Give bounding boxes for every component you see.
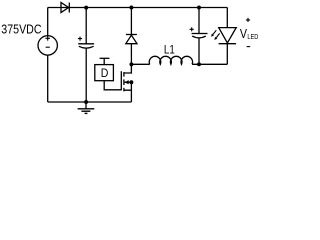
capacitor C2 output cap [190, 8, 208, 65]
capacitor C1 input bulk cap [78, 8, 94, 103]
svg-text:375VDC: 375VDC [1, 22, 42, 37]
wire inductor to output corner [192, 63, 227, 65]
svg-text:L1: L1 [164, 43, 175, 56]
node dot body-source tie [129, 80, 133, 84]
svg-text:V: V [240, 27, 247, 41]
node dot switch node [129, 62, 133, 66]
node dot ground junction [84, 100, 88, 104]
ground [78, 102, 95, 113]
svg-text:D: D [101, 67, 109, 80]
node dot input cap top [84, 6, 88, 10]
driver input terminal [100, 58, 110, 64]
diode D2 freewheeling diode [126, 8, 137, 65]
svg-text:LED: LED [247, 33, 258, 41]
wire left branch top (source top lead) [47, 8, 49, 36]
wire driver to gate [104, 81, 121, 90]
label V_LED with polarity [240, 18, 259, 47]
wire left branch bottom (source bottom lead) [47, 55, 49, 102]
node dot output cap top [197, 6, 201, 10]
wire bottom rail [48, 101, 132, 103]
wire switch node to inductor [131, 63, 149, 65]
wire LED branch bottom [226, 44, 228, 65]
diode D1 series input diode [61, 3, 69, 13]
node dot freewheel diode top [129, 6, 133, 10]
node dot output cap bottom [197, 62, 201, 66]
wire LED branch top [226, 8, 228, 28]
transistor Q1 MOSFET [121, 64, 131, 102]
driver block D [95, 65, 114, 81]
wire top rail [48, 7, 228, 9]
voltage source V1 375VDC [38, 36, 57, 55]
inductor L1 [149, 56, 192, 64]
LED [211, 28, 236, 44]
